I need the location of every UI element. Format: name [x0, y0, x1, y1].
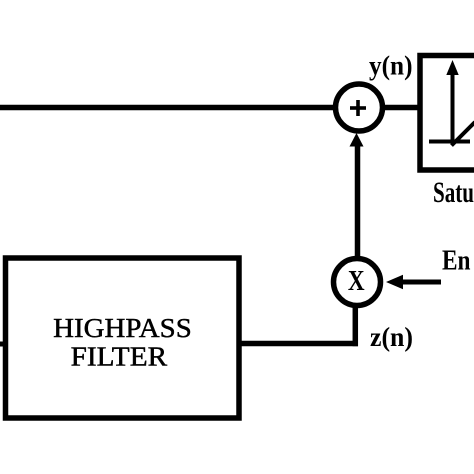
svg-text:En: En: [442, 246, 471, 277]
saturation curve x-axis: [429, 140, 470, 144]
label Saturation (clipped): [433, 177, 474, 209]
svg-text:X: X: [348, 264, 365, 296]
wire: input stub into highpass filter at left edge: [0, 342, 5, 347]
svg-text:z(n): z(n): [370, 322, 413, 352]
svg-text:HIGHPASS: HIGHPASS: [53, 313, 192, 343]
adder U1 (+): [336, 84, 383, 131]
svg-text:y(n): y(n): [369, 51, 413, 81]
highpass filter block U4: [6, 258, 240, 418]
saturation curve y-axis with arrowhead: [446, 60, 458, 142]
wire: enable arrow into multiplier: [386, 275, 441, 289]
label En (clipped enable signal): [442, 246, 471, 277]
label z(n): [370, 322, 413, 352]
label FILTER (line 2): [71, 342, 168, 372]
label y(n): [369, 51, 413, 81]
wire: feedback vertical line from multiplier up into adder, with arrowhead: [350, 133, 364, 258]
wire: adder output to saturation block: [384, 105, 420, 111]
wire: highpass filter output to multiplier branch: [241, 341, 358, 347]
svg-text:Satu: Satu: [433, 177, 474, 209]
multiplier U3 (X): [334, 259, 381, 306]
wire: input signal line into adder: [0, 105, 334, 111]
wire: multiplier down to highpass output connector: [353, 306, 359, 346]
label HIGHPASS (line 1): [53, 313, 192, 343]
saturation curve diagonal ramp: [452, 122, 474, 146]
saturation block U2 (box, clipped at right edge): [420, 56, 474, 171]
svg-text:FILTER: FILTER: [71, 342, 168, 372]
